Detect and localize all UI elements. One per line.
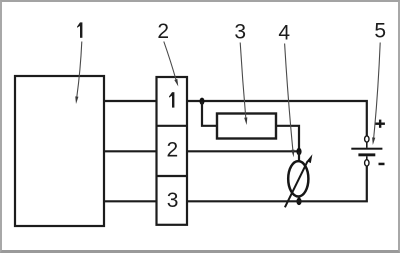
battery (item 5) upper terminal circle xyxy=(365,136,369,142)
svg-text:4: 4 xyxy=(278,22,290,45)
connector stack outline (item 2) xyxy=(157,77,188,225)
wire box1 to pin3 xyxy=(104,200,157,202)
wire junction down to resistor xyxy=(202,101,217,126)
leader 3 xyxy=(240,43,246,119)
wire box1 to pin1 xyxy=(104,100,157,102)
leader 4 xyxy=(285,44,293,151)
wire pin1 to battery + xyxy=(187,101,367,136)
battery connector below plate xyxy=(366,156,368,160)
meter arrow xyxy=(285,161,308,207)
wire pin3 to battery - xyxy=(187,166,367,201)
wire meter bottom to wire3 xyxy=(298,196,300,201)
wire resistor to meter junction xyxy=(276,126,299,152)
battery negative plate xyxy=(358,153,375,156)
svg-text:3: 3 xyxy=(167,189,179,212)
junction node below meter xyxy=(296,198,301,205)
ECU block (box 1) xyxy=(15,76,104,226)
wire box1 to pin2 xyxy=(104,150,157,152)
leader 1 xyxy=(77,42,82,98)
label 1 xyxy=(77,22,82,37)
svg-text:2: 2 xyxy=(157,20,169,43)
wire pin2 to meter junction xyxy=(187,150,299,152)
leader 5 xyxy=(374,43,381,139)
meter body (item 4) xyxy=(288,161,308,196)
battery lower terminal circle xyxy=(365,160,369,166)
plus sign xyxy=(375,123,385,125)
battery connector above plate xyxy=(366,142,368,148)
leader 2 xyxy=(164,42,176,81)
junction node on wire 1 xyxy=(200,98,205,105)
svg-text:3: 3 xyxy=(234,21,246,44)
minus sign xyxy=(379,163,385,166)
pin number 1 xyxy=(169,92,174,107)
wire junction to meter top xyxy=(298,152,300,163)
svg-text:5: 5 xyxy=(374,20,386,43)
resistor (item 3) xyxy=(217,114,276,139)
svg-text:2: 2 xyxy=(167,138,179,161)
junction node above meter xyxy=(296,148,301,155)
divider pin1/pin2 xyxy=(157,125,188,127)
battery positive plate xyxy=(351,148,382,150)
divider pin2/pin3 xyxy=(157,175,188,177)
